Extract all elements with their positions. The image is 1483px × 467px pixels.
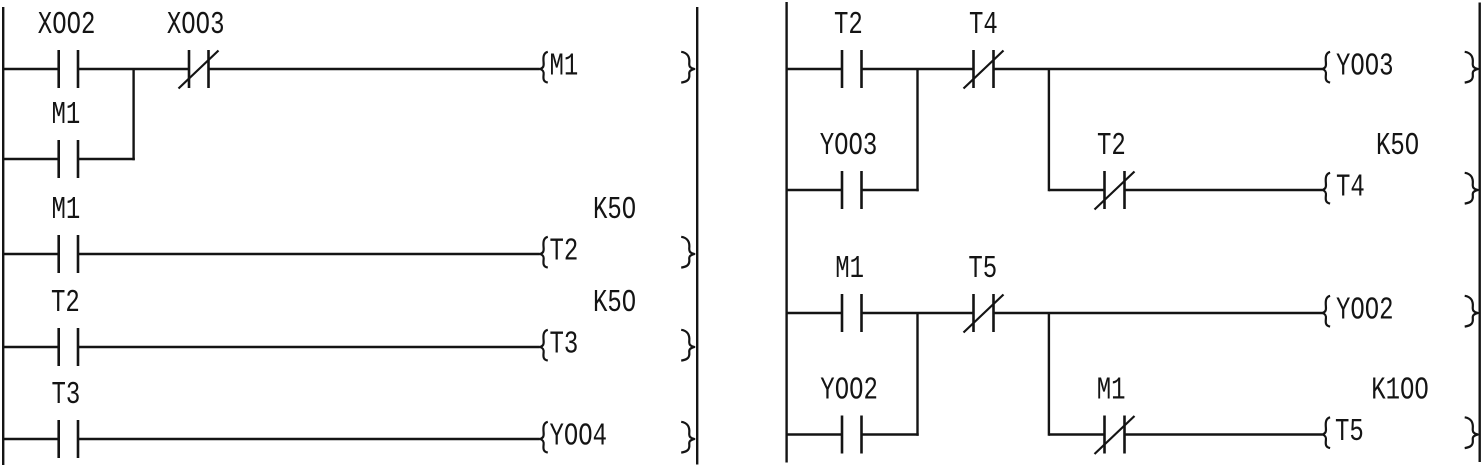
svg-text:M1: M1 xyxy=(835,251,864,287)
svg-text:T4: T4 xyxy=(1336,170,1365,206)
wire branch row xyxy=(3,158,135,160)
svg-text:YOO3: YOO3 xyxy=(820,128,878,164)
coil Y003 xyxy=(1323,49,1478,85)
wire rung1 left xyxy=(3,68,540,70)
svg-text:T2: T2 xyxy=(51,285,80,321)
wire T4 coil row xyxy=(1049,189,1322,191)
svg-text:K1OO: K1OO xyxy=(1371,373,1429,409)
wire Y003 row xyxy=(787,189,919,191)
contact M1 (right rung2) xyxy=(842,294,862,332)
contact M1 (branch) xyxy=(59,140,78,178)
svg-text:YOO4: YOO4 xyxy=(550,419,608,455)
right power rail (left ladder) xyxy=(696,7,698,465)
wire rung1 right xyxy=(787,68,1323,70)
contact Y002 xyxy=(842,416,862,454)
left power rail (left ladder) xyxy=(2,7,4,465)
svg-text:T3: T3 xyxy=(52,377,81,413)
wire branch vertical 2 (rung1 to T4 coil row) xyxy=(1048,69,1050,191)
svg-text:K5O: K5O xyxy=(593,192,636,228)
svg-text:T5: T5 xyxy=(968,251,997,287)
NC contact X003 xyxy=(179,50,219,89)
contact M1 (rung2) xyxy=(59,235,78,273)
svg-text:XOO2: XOO2 xyxy=(38,7,96,43)
wire T5 coil row xyxy=(1049,433,1322,435)
svg-text:M1: M1 xyxy=(52,97,81,133)
wire rung2 right xyxy=(787,312,1323,314)
svg-text:YOO3: YOO3 xyxy=(1336,49,1394,85)
wire branch vertical 1 (rung1 to Y003 row) xyxy=(916,69,918,191)
coil T5 xyxy=(1323,414,1478,450)
left power rail (right ladder) xyxy=(785,2,787,463)
contact T3 (rung4) xyxy=(59,420,78,458)
wire rung2 left xyxy=(3,253,540,255)
coil T3 xyxy=(540,327,694,363)
svg-text:T2: T2 xyxy=(550,234,579,270)
NC contact T5 xyxy=(964,294,1004,333)
contact T2 (rung3) xyxy=(59,328,78,366)
svg-text:K5O: K5O xyxy=(593,285,636,321)
wire rung3 left xyxy=(3,346,540,348)
coil Y002 xyxy=(1323,293,1478,329)
right power rail (right ladder) xyxy=(1478,3,1480,463)
wire Y002 row xyxy=(787,433,919,435)
svg-text:T2: T2 xyxy=(834,7,863,43)
svg-text:T2: T2 xyxy=(1097,128,1126,164)
wire rung4 left xyxy=(3,438,540,440)
NC contact T4 xyxy=(964,50,1004,89)
svg-text:M1: M1 xyxy=(550,49,579,85)
svg-text:M1: M1 xyxy=(1097,373,1126,409)
wire branch vertical 3 (rung2 to Y002 row) xyxy=(916,313,918,436)
svg-text:T3: T3 xyxy=(550,327,579,363)
coil T4 xyxy=(1323,170,1478,206)
svg-text:XOO3: XOO3 xyxy=(167,7,225,43)
contact X002 xyxy=(59,50,78,88)
contact Y003 xyxy=(842,171,862,209)
svg-text:T4: T4 xyxy=(969,7,998,43)
coil M1 xyxy=(540,49,694,85)
NC contact T2 (T4 coil row) xyxy=(1095,171,1135,210)
wire branch vertical 4 (rung2 to T5 coil row) xyxy=(1048,313,1050,436)
svg-text:T5: T5 xyxy=(1335,414,1364,450)
svg-text:YOO2: YOO2 xyxy=(1336,293,1394,329)
svg-text:M1: M1 xyxy=(52,192,81,228)
coil T2 xyxy=(540,234,694,270)
svg-text:YOO2: YOO2 xyxy=(820,373,878,409)
NC contact M1 (T5 coil row) xyxy=(1095,416,1135,455)
svg-text:K5O: K5O xyxy=(1376,128,1419,164)
coil Y004 xyxy=(540,419,694,455)
wire branch vertical (junction rung1 to M1 branch) xyxy=(132,69,134,160)
contact T2 (right rung1) xyxy=(842,50,862,88)
